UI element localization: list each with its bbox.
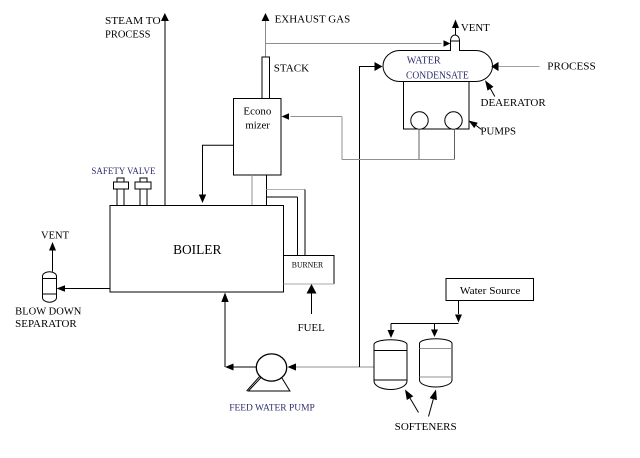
economizer U1	[234, 99, 282, 176]
wire separator vent	[49, 242, 56, 272]
svg-text:CONDENSATE: CONDENSATE	[406, 70, 469, 81]
label SOFTENERS with leaders	[395, 390, 457, 433]
wire fuel	[307, 284, 317, 314]
label WATER CONDENSATE	[406, 55, 469, 81]
svg-text:Water Source: Water Source	[460, 286, 521, 297]
water source box	[446, 279, 534, 301]
wire flue duct boiler to economizer	[252, 175, 267, 206]
svg-text:STEAM TO: STEAM TO	[105, 16, 161, 27]
wire blowdown	[57, 285, 111, 292]
wire deaerator vent	[452, 20, 459, 36]
safety valve 1	[114, 178, 129, 206]
label DEAERATOR with leader	[481, 80, 546, 109]
wire exhaust gas line	[262, 13, 270, 57]
blow down separator	[43, 272, 57, 303]
label BLOW DOWN SEPARATOR	[15, 307, 82, 331]
wire water source to softeners	[388, 301, 463, 339]
pump housing	[404, 82, 470, 130]
label Econo mizer	[243, 107, 271, 132]
svg-text:SEPARATOR: SEPARATOR	[15, 319, 76, 330]
svg-text:FEED WATER PUMP: FEED WATER PUMP	[229, 404, 315, 414]
pump P2	[445, 112, 462, 129]
wire stack to deaerator vent	[266, 40, 451, 46]
svg-text:BOILER: BOILER	[173, 243, 222, 258]
pump P1	[411, 112, 428, 129]
svg-text:BLOW DOWN: BLOW DOWN	[15, 307, 82, 318]
wire softener to pump suction	[288, 363, 375, 370]
safety valve 2	[135, 178, 151, 206]
svg-text:DEAERATOR: DEAERATOR	[481, 98, 546, 109]
svg-text:BURNER: BURNER	[292, 259, 324, 269]
svg-text:VENT: VENT	[41, 230, 70, 241]
svg-text:mizer: mizer	[245, 120, 270, 131]
wire boiler feed riser	[221, 293, 228, 368]
wire burner duct	[267, 190, 306, 256]
wire deaerator feed riser	[360, 62, 383, 367]
softener S2	[420, 339, 453, 387]
svg-text:FUEL: FUEL	[298, 323, 325, 334]
stack	[262, 57, 270, 99]
label PUMPS with leader	[469, 121, 517, 138]
svg-text:WATER: WATER	[407, 55, 441, 66]
wire discharge manifold	[282, 113, 455, 159]
svg-text:SOFTENERS: SOFTENERS	[395, 422, 457, 433]
wire economizer feed to boiler	[199, 145, 234, 203]
svg-text:PUMPS: PUMPS	[481, 127, 517, 138]
wire pump discharge drops	[419, 129, 455, 160]
wire pump discharge	[225, 364, 257, 371]
svg-text:STACK: STACK	[274, 64, 310, 75]
feed water pump	[247, 354, 290, 391]
vent cylinder	[451, 35, 460, 51]
burner	[284, 256, 335, 285]
softener S1	[374, 340, 407, 390]
svg-text:SAFETY VALVE: SAFETY VALVE	[91, 166, 155, 176]
svg-text:PROCESS: PROCESS	[105, 30, 151, 41]
deaerator tank	[383, 51, 492, 82]
label STEAM TO PROCESS	[105, 16, 161, 41]
svg-text:VENT: VENT	[461, 23, 490, 34]
wire process in	[491, 62, 539, 71]
svg-text:PROCESS: PROCESS	[547, 62, 596, 73]
wire steam line	[161, 13, 169, 206]
svg-text:Econo: Econo	[243, 107, 271, 118]
svg-text:EXHAUST GAS: EXHAUST GAS	[275, 14, 351, 25]
boiler	[110, 206, 284, 293]
